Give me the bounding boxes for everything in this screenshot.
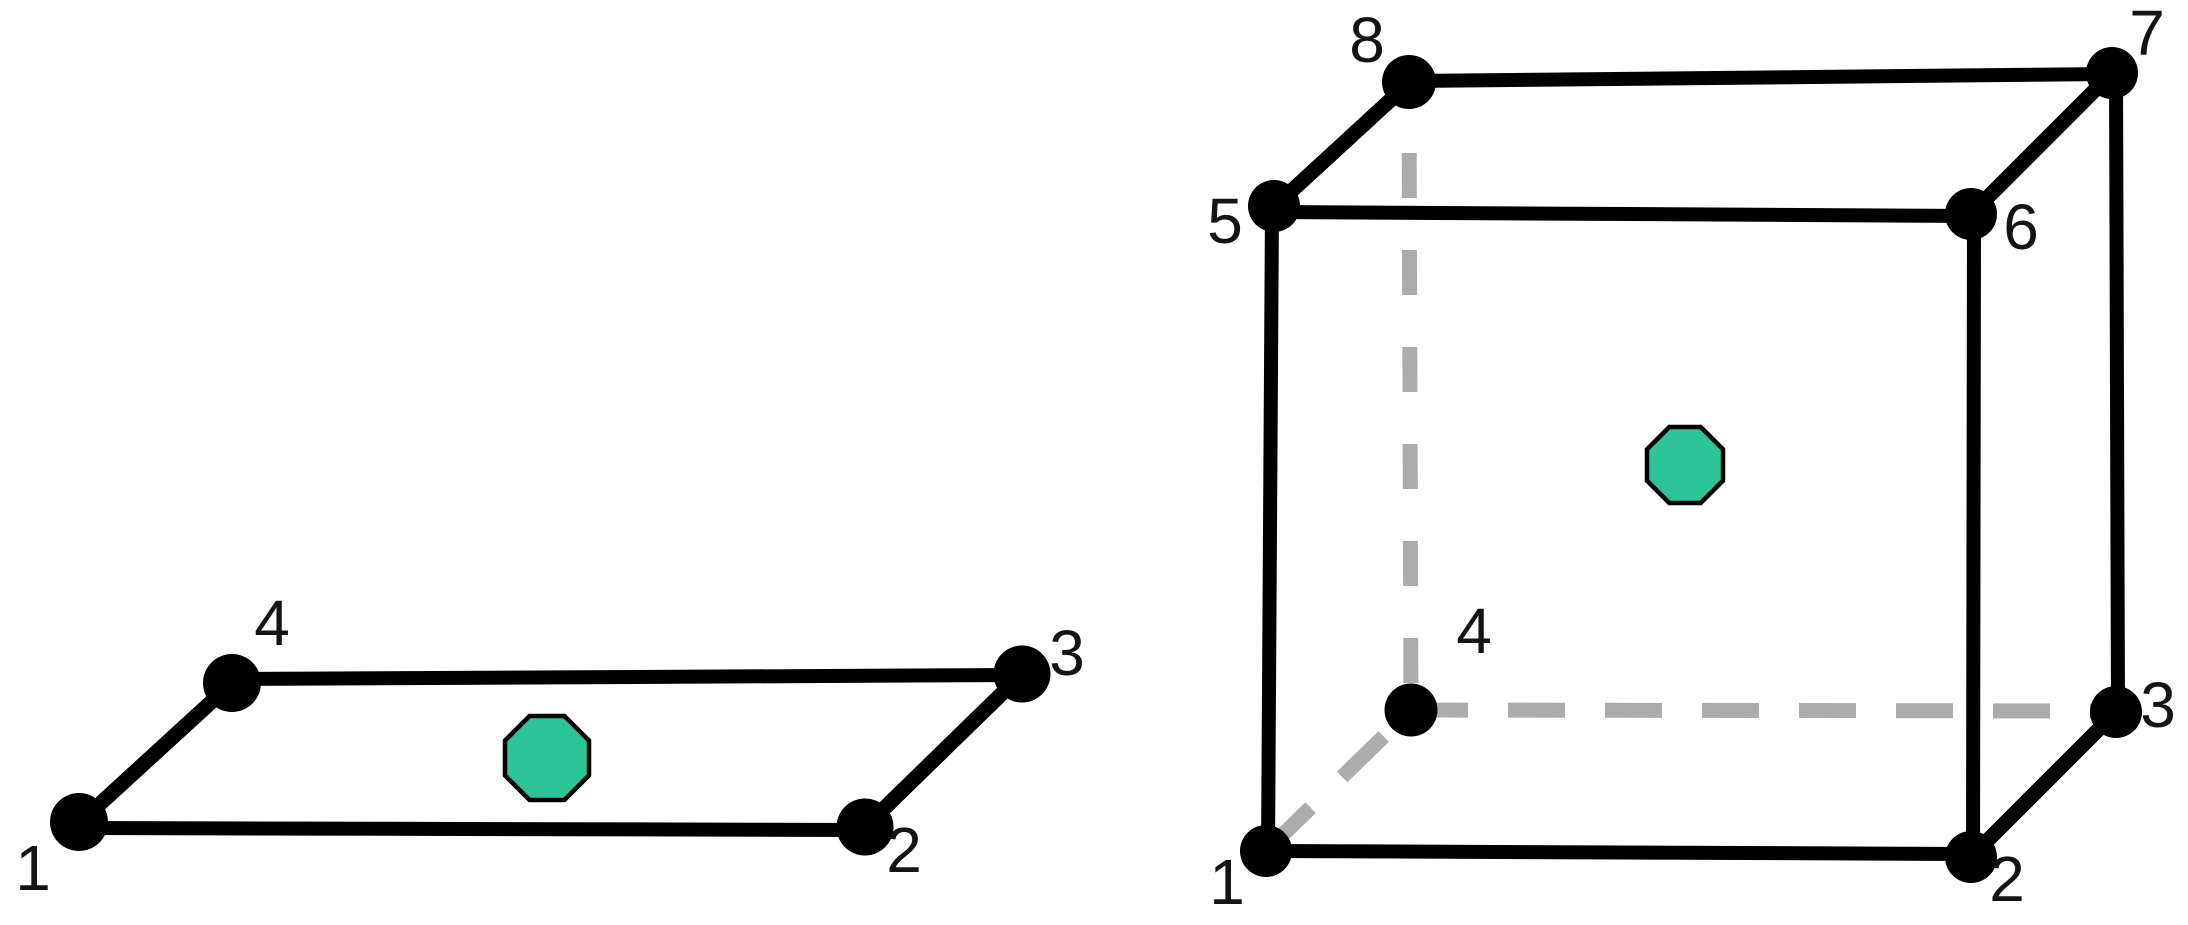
hex wire edge 1-2 <box>1266 851 1971 854</box>
quad integration point (green octagon) <box>505 716 589 800</box>
hex wire edge 6-2 <box>1973 215 1974 857</box>
hex node 6 <box>1945 188 1997 240</box>
hex hidden wire edge 4-8 (dashed) <box>1409 95 1411 710</box>
quad wire edge 3-4 <box>232 675 1022 679</box>
hex node 3 <box>2090 686 2142 738</box>
hex wire edge 7-3 <box>2116 73 2118 712</box>
hex node 1 <box>1240 825 1292 877</box>
svg-text:8: 8 <box>1349 4 1385 76</box>
hex wire edge 5-8 <box>1274 83 1409 207</box>
hex wire edge 8-7 <box>1409 74 2112 81</box>
quad node 3 <box>994 646 1051 703</box>
quad node 1 <box>50 793 108 851</box>
hex node 4 <box>1385 684 1438 737</box>
hex wire edge 5-6 <box>1273 212 1971 216</box>
hex wire edge 6-7 <box>1971 73 2112 214</box>
hex node 8 <box>1382 55 1436 109</box>
quad element (left, 4-node) <box>15 587 1085 904</box>
hex node 7 <box>2086 47 2138 99</box>
svg-text:5: 5 <box>1207 185 1243 257</box>
svg-text:7: 7 <box>2129 0 2165 69</box>
quad wire edge 2-3 <box>865 674 1022 827</box>
hex node 2 <box>1945 831 1997 883</box>
svg-text:3: 3 <box>1049 617 1085 689</box>
svg-text:6: 6 <box>2003 191 2039 263</box>
svg-text:4: 4 <box>254 587 290 659</box>
quad wire edge 1-2 <box>79 828 865 830</box>
quad wire edge 4-1 <box>79 683 232 823</box>
quad node 4 <box>203 654 261 712</box>
quad node 2 <box>837 799 894 856</box>
svg-text:1: 1 <box>15 832 51 904</box>
svg-text:3: 3 <box>2140 669 2176 741</box>
hex element (right, 8-node cube) <box>1207 0 2176 918</box>
svg-text:1: 1 <box>1209 846 1245 918</box>
hex node 5 <box>1248 180 1300 232</box>
hex integration point (green octagon) <box>1647 427 1723 503</box>
svg-text:4: 4 <box>1456 595 1492 667</box>
hex wire edge 1-5 <box>1268 207 1272 851</box>
hex hidden wire edge 4-1 (dashed) <box>1266 710 1411 851</box>
svg-text:2: 2 <box>886 814 922 886</box>
hex hidden wire edge 4-3 (dashed) <box>1411 710 2116 711</box>
svg-text:2: 2 <box>1989 843 2025 915</box>
hex wire edge 2-3 <box>1971 712 2116 857</box>
